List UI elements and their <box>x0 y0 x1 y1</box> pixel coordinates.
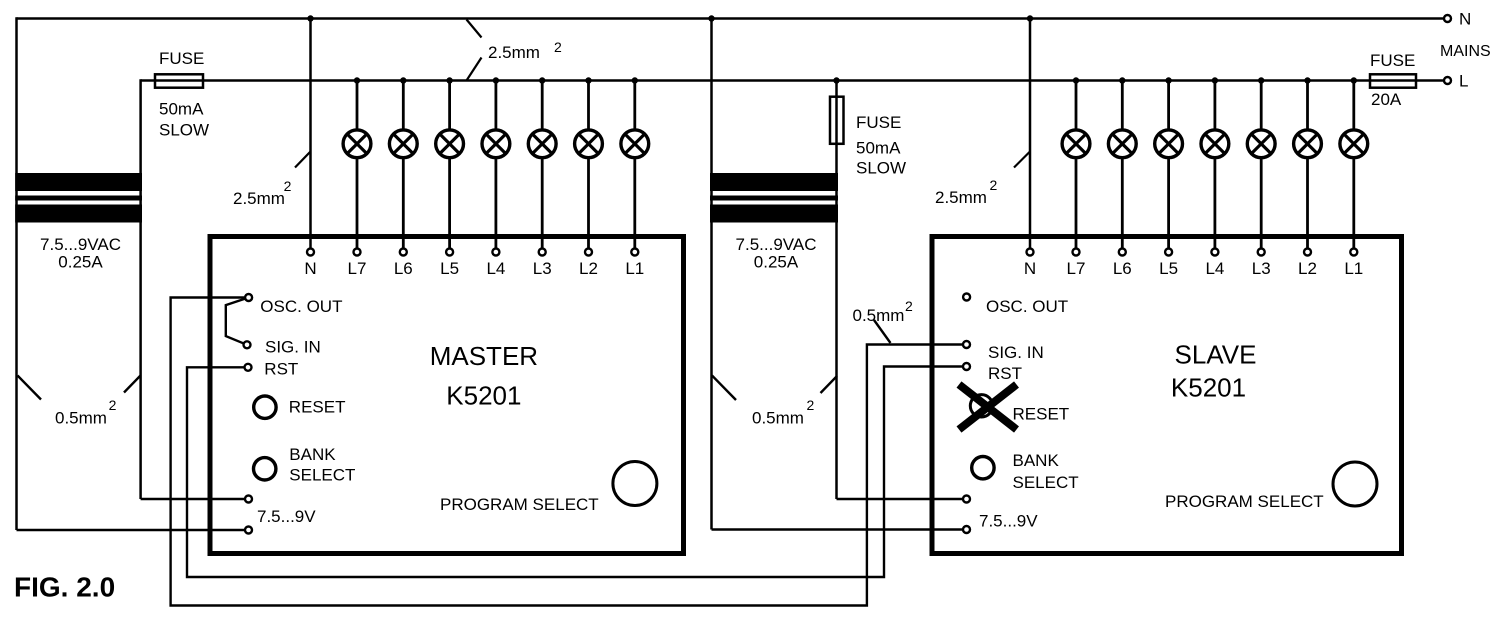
svg-text:2: 2 <box>554 39 562 55</box>
svg-text:SIG. IN: SIG. IN <box>988 343 1044 362</box>
node: junction L bus / lamp L5 master <box>446 77 452 83</box>
tick: 0.5mm2 mark on T1 secondary left <box>18 376 42 400</box>
svg-text:L3: L3 <box>533 259 552 278</box>
lamp L4 (master bank) <box>482 130 510 158</box>
svg-text:7.5...9VAC: 7.5...9VAC <box>40 235 121 254</box>
wire: lamp L3 (slave bank) return to SLAVE terminal L3 <box>1260 158 1263 252</box>
svg-text:N: N <box>1459 9 1471 28</box>
svg-text:L7: L7 <box>348 259 367 278</box>
terminal: MASTER L4 <box>492 249 499 256</box>
svg-text:BANK: BANK <box>1013 451 1060 470</box>
wire: T1 right leg from FUSE F1 down through winding to 7.5-9V wire <box>139 79 142 499</box>
terminal: MASTER N <box>307 249 314 256</box>
lamp L4 (slave bank) <box>1201 130 1229 158</box>
fuse F3 20A body <box>1370 74 1416 87</box>
transformer T2 winding bars (primary) <box>710 173 838 191</box>
terminal: MASTER L2 <box>585 249 592 256</box>
svg-text:FUSE: FUSE <box>1370 51 1415 70</box>
lamp L7 (slave bank) <box>1062 130 1090 158</box>
node: junction L bus / lamp L3 master <box>539 77 545 83</box>
wire: lamp L5 (slave bank) return to SLAVE terminal L5 <box>1167 158 1170 252</box>
terminal: MASTER SIG. IN <box>244 341 251 348</box>
node: junction L bus / lamp L4 slave <box>1212 77 1218 83</box>
node: junction L bus / lamp L5 slave <box>1165 77 1171 83</box>
svg-text:SIG. IN: SIG. IN <box>265 338 321 357</box>
tick: 0.5mm2 mark on T1 secondary right <box>124 376 141 393</box>
node: junction L bus / lamp L1 slave <box>1351 77 1357 83</box>
svg-text:50mA: 50mA <box>856 138 901 157</box>
lamp L3 (master bank) <box>528 130 556 158</box>
wire: mains L bus (second horizontal) <box>141 79 1444 82</box>
svg-text:L3: L3 <box>1252 259 1271 278</box>
svg-text:0.5mm: 0.5mm <box>55 409 107 428</box>
module U1 MASTER K5201 outline <box>210 237 684 554</box>
wire: lamp L3 (master bank) feed from L bus <box>541 81 544 130</box>
svg-text:0.25A: 0.25A <box>58 253 103 272</box>
svg-text:OSC. OUT: OSC. OUT <box>260 297 342 316</box>
node: junction L bus / lamp L2 master <box>585 77 591 83</box>
button: MASTER PROGRAM SELECT <box>613 462 657 506</box>
svg-text:FIG. 2.0: FIG. 2.0 <box>14 572 115 603</box>
terminal: SLAVE L7 <box>1073 249 1080 256</box>
terminal: SLAVE 7.5...9V - <box>963 526 970 533</box>
svg-text:K5201: K5201 <box>1171 373 1246 403</box>
svg-text:OSC. OUT: OSC. OUT <box>986 297 1068 316</box>
terminal: MASTER L7 <box>354 249 361 256</box>
terminal: SLAVE L2 <box>1304 249 1311 256</box>
svg-text:SLOW: SLOW <box>856 158 906 177</box>
button: SLAVE BANK SELECT <box>972 457 994 479</box>
terminal: SLAVE L4 <box>1211 249 1218 256</box>
button: MASTER RESET <box>254 396 276 418</box>
node: junction N bus / T2 drop <box>708 15 714 21</box>
wire: lamp L4 (slave bank) feed from L bus <box>1214 81 1217 130</box>
button: SLAVE RESET (crossed out) <box>970 395 992 417</box>
svg-text:2: 2 <box>905 298 913 314</box>
svg-text:SELECT: SELECT <box>1013 473 1079 492</box>
svg-text:2: 2 <box>990 177 998 193</box>
wire: lamp L7 (master bank) return to MASTER terminal L7 <box>356 158 359 252</box>
wire: lamp L6 (master bank) feed from L bus <box>402 81 405 130</box>
lamp L2 (slave bank) <box>1294 130 1322 158</box>
svg-text:L5: L5 <box>440 259 459 278</box>
svg-text:MAINS: MAINS <box>1440 43 1491 60</box>
node: junction L bus / lamp L1 master <box>632 77 638 83</box>
svg-text:FUSE: FUSE <box>159 49 204 68</box>
svg-text:2: 2 <box>109 397 117 413</box>
terminal: mains L <box>1444 77 1451 84</box>
terminal: SLAVE L1 <box>1350 249 1357 256</box>
node: junction L bus / lamp L7 master <box>354 77 360 83</box>
terminal: SLAVE 7.5...9V + <box>963 496 970 503</box>
tick: 2.5mm2 mark on master N drop <box>295 152 311 168</box>
node: junction L bus / lamp L3 slave <box>1258 77 1264 83</box>
svg-text:L: L <box>1459 71 1468 90</box>
labels: MASTER terminal names N L7-L1 <box>304 259 644 278</box>
transformer T1 core bar <box>15 196 142 201</box>
tick: 2.5mm2 mark on L bus <box>467 58 482 81</box>
node: junction L bus / lamp L7 slave <box>1073 77 1079 83</box>
tick: 0.5mm2 mark on T2 secondary left <box>712 376 736 401</box>
labels: SLAVE terminal names N L7-L1 <box>1024 259 1363 278</box>
lamp L6 (slave bank) <box>1108 130 1136 158</box>
terminal: MASTER RST <box>245 364 252 371</box>
svg-text:PROGRAM SELECT: PROGRAM SELECT <box>440 495 599 514</box>
svg-text:MASTER: MASTER <box>430 341 538 371</box>
svg-text:K5201: K5201 <box>446 381 521 411</box>
wire: N bus drop to transformer T2 primary left <box>710 17 713 529</box>
wire: lamp L4 (master bank) feed from L bus <box>494 81 497 130</box>
svg-text:RESET: RESET <box>1013 405 1070 424</box>
wire: lamp L1 (slave bank) feed from L bus <box>1352 81 1355 130</box>
wire: lamp L2 (master bank) return to MASTER terminal L2 <box>587 158 590 252</box>
terminal: SLAVE OSC. OUT <box>963 294 970 301</box>
wire: lamp L3 (master bank) return to MASTER terminal L3 <box>541 158 544 252</box>
terminal: MASTER 7.5...9V + <box>245 496 252 503</box>
wire: lamp L2 (master bank) feed from L bus <box>587 81 590 130</box>
lamp L1 (master bank) <box>621 130 649 158</box>
svg-text:PROGRAM SELECT: PROGRAM SELECT <box>1165 492 1324 511</box>
button: SLAVE PROGRAM SELECT <box>1333 462 1377 506</box>
transformer T1 winding bars (secondary) <box>15 205 142 223</box>
svg-text:SLOW: SLOW <box>159 121 209 140</box>
svg-text:SELECT: SELECT <box>289 466 355 485</box>
wire: mains N bus (top horizontal) <box>17 17 1444 20</box>
wire: transformer T1 primary/secondary left leg (N side) down to 7.5-9V wire <box>15 17 18 530</box>
wire: MASTER RST to SLAVE RST link <box>187 367 967 578</box>
lamp L1 (slave bank) <box>1340 130 1368 158</box>
lamp L3 (slave bank) <box>1247 130 1275 158</box>
terminal: MASTER L3 <box>539 249 546 256</box>
svg-text:2.5mm: 2.5mm <box>233 189 285 208</box>
lamp L5 (slave bank) <box>1155 130 1183 158</box>
wire: lamp L7 (master bank) feed from L bus <box>356 81 359 130</box>
svg-text:7.5...9VAC: 7.5...9VAC <box>736 235 817 254</box>
svg-text:0.5mm: 0.5mm <box>853 306 905 325</box>
wire: lamp L6 (slave bank) feed from L bus <box>1121 81 1124 130</box>
svg-text:7.5...9V: 7.5...9V <box>979 512 1038 531</box>
wire: N drop to MASTER N terminal <box>309 19 312 253</box>
svg-text:7.5...9V: 7.5...9V <box>257 507 316 526</box>
wire: lamp L4 (master bank) return to MASTER terminal L4 <box>494 158 497 252</box>
wire: lamp L6 (master bank) return to MASTER terminal L6 <box>402 158 405 252</box>
svg-text:L1: L1 <box>625 259 644 278</box>
wire: T1 secondary lower feed to MASTER 7.5...9V terminal <box>17 529 249 532</box>
svg-text:L2: L2 <box>1298 259 1317 278</box>
tick: 0.5mm2 mark on T2 secondary right <box>821 376 838 393</box>
svg-text:L6: L6 <box>394 259 413 278</box>
terminal: MASTER OSC. OUT <box>245 294 252 301</box>
svg-text:RST: RST <box>988 364 1022 383</box>
svg-text:L4: L4 <box>486 259 505 278</box>
node: junction L bus / fuse F2 drop <box>833 77 839 83</box>
lamp L5 (master bank) <box>436 130 464 158</box>
svg-text:L4: L4 <box>1205 259 1224 278</box>
terminal: MASTER L5 <box>446 249 453 256</box>
svg-text:RST: RST <box>264 360 298 379</box>
wire: lamp L5 (master bank) return to MASTER terminal L5 <box>448 158 451 252</box>
terminal: SLAVE L3 <box>1258 249 1265 256</box>
node: junction L bus / lamp L6 slave <box>1119 77 1125 83</box>
wire: N drop to SLAVE N terminal <box>1029 19 1032 253</box>
wire: lamp L7 (slave bank) return to SLAVE terminal L7 <box>1075 158 1078 252</box>
svg-text:FUSE: FUSE <box>856 113 901 132</box>
wire: T1 secondary upper feed to MASTER 7.5...9V terminal <box>141 498 249 501</box>
wire: lamp L1 (slave bank) return to SLAVE terminal L1 <box>1352 158 1355 252</box>
svg-text:L2: L2 <box>579 259 598 278</box>
terminal: mains N <box>1444 15 1451 22</box>
svg-text:50mA: 50mA <box>159 100 204 119</box>
wire: T2 secondary upper feed to SLAVE 7.5...9V terminal <box>837 498 967 501</box>
lamp L7 (master bank) <box>343 130 371 158</box>
node: junction L bus / lamp L6 master <box>400 77 406 83</box>
svg-text:BANK: BANK <box>289 445 336 464</box>
terminal: SLAVE SIG. IN <box>963 341 970 348</box>
terminal: SLAVE L6 <box>1119 249 1126 256</box>
tick: 0.5mm2 mark on signal link wires <box>874 320 891 343</box>
lamp L6 (master bank) <box>389 130 417 158</box>
wire: lamp L2 (slave bank) return to SLAVE terminal L2 <box>1306 158 1309 252</box>
tick: 2.5mm2 mark on slave N drop <box>1014 152 1030 168</box>
wire: T2 secondary lower feed to SLAVE 7.5...9V terminal <box>712 528 967 531</box>
wire: lamp L3 (slave bank) feed from L bus <box>1260 81 1263 130</box>
terminal: SLAVE L5 <box>1165 249 1172 256</box>
svg-text:N: N <box>1024 259 1036 278</box>
terminal: SLAVE N <box>1027 249 1034 256</box>
node: junction N bus / slave N drop <box>1027 15 1033 21</box>
svg-text:L5: L5 <box>1159 259 1178 278</box>
svg-text:RESET: RESET <box>289 397 346 416</box>
wire: lamp L1 (master bank) return to MASTER terminal L1 <box>633 158 636 252</box>
node: junction L bus / lamp L2 slave <box>1304 77 1310 83</box>
node: junction N bus / master N drop <box>307 15 313 21</box>
mark: X cross over SLAVE RESET button <box>959 385 1017 430</box>
wire: L bus drop through FUSE F2 and T2 right leg <box>835 81 838 500</box>
wire: MASTER OSC. OUT to SLAVE SIG. IN link <box>171 298 967 606</box>
svg-text:0.5mm: 0.5mm <box>752 409 804 428</box>
wire: lamp L7 (slave bank) feed from L bus <box>1075 81 1078 130</box>
svg-text:2: 2 <box>807 397 815 413</box>
svg-text:0.25A: 0.25A <box>754 253 799 272</box>
terminal: MASTER 7.5...9V - <box>245 527 252 534</box>
svg-text:L7: L7 <box>1067 259 1086 278</box>
svg-text:SLAVE: SLAVE <box>1175 340 1257 370</box>
tick: 2.5mm2 mark on N bus <box>467 20 482 38</box>
svg-text:L1: L1 <box>1344 259 1363 278</box>
transformer T2 core bar <box>710 196 838 201</box>
svg-text:2.5mm: 2.5mm <box>488 43 540 62</box>
svg-text:20A: 20A <box>1371 90 1402 109</box>
node: junction L bus / lamp L4 master <box>493 77 499 83</box>
wire: lamp L5 (master bank) feed from L bus <box>448 81 451 130</box>
fuse F1 50mA SLOW body <box>155 74 203 87</box>
transformer T2 winding bars (secondary) <box>710 205 838 223</box>
wire: lamp L2 (slave bank) feed from L bus <box>1306 81 1309 130</box>
wire: lamp L1 (master bank) feed from L bus <box>633 81 636 130</box>
terminal: MASTER L6 <box>400 249 407 256</box>
svg-text:2.5mm: 2.5mm <box>935 188 987 207</box>
module U2 SLAVE K5201 outline <box>932 237 1402 554</box>
fuse F2 50mA SLOW body (vertical) <box>830 97 844 144</box>
svg-text:L6: L6 <box>1113 259 1132 278</box>
terminal: SLAVE RST <box>963 363 970 370</box>
wire: jumper MASTER OSC. OUT to MASTER SIG. IN <box>226 298 249 345</box>
button: MASTER BANK SELECT <box>254 458 276 480</box>
wire: lamp L6 (slave bank) return to SLAVE terminal L6 <box>1121 158 1124 252</box>
terminal: MASTER L1 <box>631 249 638 256</box>
svg-text:N: N <box>304 259 316 278</box>
lamp L2 (master bank) <box>575 130 603 158</box>
wire: lamp L4 (slave bank) return to SLAVE terminal L4 <box>1214 158 1217 252</box>
svg-text:2: 2 <box>284 178 292 194</box>
wire: lamp L5 (slave bank) feed from L bus <box>1167 81 1170 130</box>
transformer T1 winding bars (primary) <box>15 173 142 191</box>
